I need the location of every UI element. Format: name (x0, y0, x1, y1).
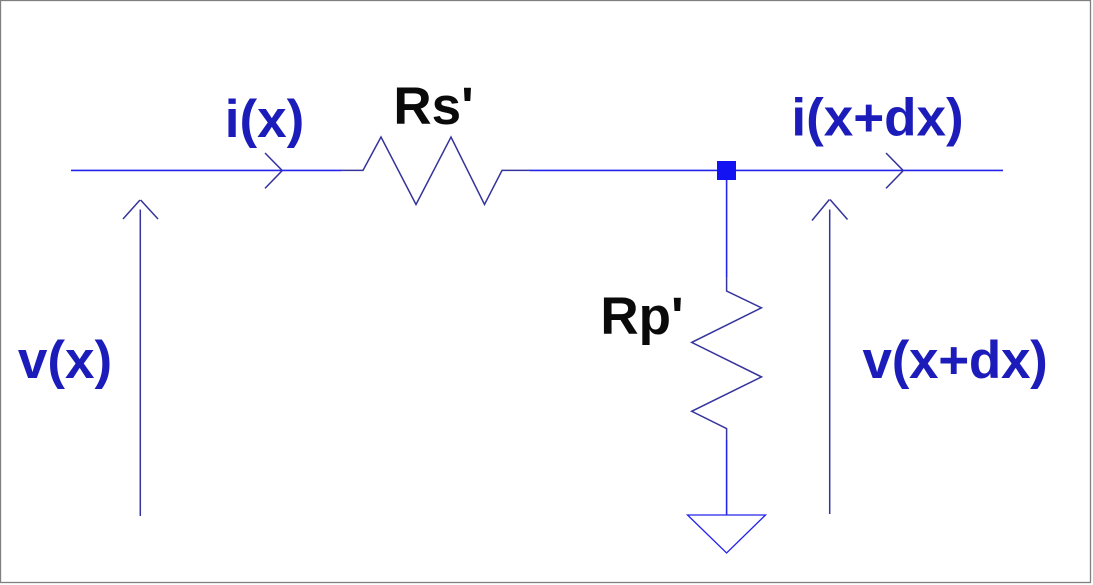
wire: horizontal line from Rs' to node (530, 169, 717, 171)
svg-text:Rp': Rp' (600, 287, 683, 346)
voltage arrow v(x+dx) (right, pointing up) (812, 200, 848, 515)
svg-text:Rs': Rs' (393, 77, 473, 136)
node junction square (717, 161, 736, 180)
ground (688, 515, 766, 553)
wire: vertical from Rp' down to ground (726, 440, 728, 515)
voltage arrow v(x) (left, pointing up) (123, 200, 158, 516)
resistor Rp' (shunt, vertical zigzag) (692, 277, 762, 440)
wire: main horizontal line left of Rs' (71, 169, 341, 171)
wire: horizontal line from node to right end (736, 169, 1003, 171)
current arrow i(x) on wire (265, 153, 282, 188)
current arrow i(x+dx) on wire (886, 153, 903, 188)
svg-text:i(x+dx): i(x+dx) (791, 89, 963, 148)
wire: vertical from node down to Rp' (726, 180, 728, 277)
resistor Rs' (series, horizontal zigzag) (341, 137, 530, 205)
svg-text:i(x): i(x) (225, 90, 305, 149)
svg-text:v(x): v(x) (18, 331, 112, 390)
svg-text:v(x+dx): v(x+dx) (863, 331, 1048, 390)
